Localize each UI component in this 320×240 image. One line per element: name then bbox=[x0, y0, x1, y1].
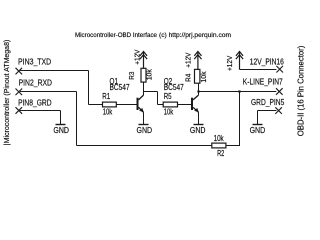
svg-text:R2: R2 bbox=[217, 149, 224, 158]
wire TXD horizontal bbox=[20, 70, 89, 72]
pin PIN2_RXD connector X bbox=[16, 89, 23, 96]
svg-text:GND: GND bbox=[250, 126, 266, 135]
svg-text:GRD_PIN5: GRD_PIN5 bbox=[251, 98, 285, 107]
wire R3 bottom to Q1 collector node bbox=[143, 82, 145, 92]
svg-text:R3: R3 bbox=[129, 71, 136, 79]
wire RXD horizontal bbox=[20, 91, 77, 93]
node B junction dot bbox=[197, 90, 199, 92]
svg-text:(c) http://prj.perquin.com: (c) http://prj.perquin.com bbox=[159, 32, 231, 39]
svg-text:PIN2_RXD: PIN2_RXD bbox=[19, 78, 53, 87]
svg-text:+12V: +12V bbox=[134, 49, 141, 65]
svg-text:GND: GND bbox=[190, 126, 206, 135]
svg-text:10k: 10k bbox=[164, 108, 174, 117]
pin 12V_PIN16 connector X bbox=[276, 66, 283, 73]
wire GRD horizontal bbox=[20, 110, 61, 112]
resistor R3 bbox=[129, 68, 154, 82]
svg-text:GND: GND bbox=[137, 126, 153, 135]
svg-text:GND: GND bbox=[53, 126, 69, 135]
power +12V (R3 pull-up) bbox=[140, 52, 147, 69]
pin PIN3_TXD connector X bbox=[16, 68, 23, 75]
wire R2 right to junction column bbox=[226, 145, 240, 147]
pin PIN8_GRD connector X bbox=[16, 107, 23, 114]
svg-text:OBD-II (16 Pin Connector): OBD-II (16 Pin Connector) bbox=[297, 45, 306, 136]
wire RXD vertical drop bbox=[76, 92, 78, 146]
svg-text:10k: 10k bbox=[103, 107, 113, 116]
wire R1 to Q1 base bbox=[116, 104, 136, 106]
svg-text:BC547: BC547 bbox=[110, 83, 130, 92]
svg-text:K-LINE_PIN7: K-LINE_PIN7 bbox=[243, 78, 283, 87]
wire +12V to PIN16 bbox=[240, 69, 277, 71]
wire R5 to Q2 base bbox=[178, 104, 192, 106]
svg-text:+12V: +12V bbox=[227, 55, 234, 71]
junction dot K-line to R2 bbox=[238, 90, 240, 92]
svg-text:12V_PIN16: 12V_PIN16 bbox=[250, 57, 284, 66]
svg-text:R5: R5 bbox=[164, 92, 172, 101]
wire GRD vertical drop bbox=[60, 111, 62, 125]
transistor Q2 bbox=[164, 77, 199, 125]
wire TXD vertical drop bbox=[88, 71, 90, 105]
svg-text:R4: R4 bbox=[186, 74, 193, 82]
resistor R2 bbox=[212, 134, 226, 158]
power +12V (OBD supply) bbox=[236, 52, 243, 70]
svg-text:10k: 10k bbox=[214, 134, 224, 143]
svg-text:Microcontroller-OBD Interface: Microcontroller-OBD Interface bbox=[75, 32, 157, 39]
transistor Q1 bbox=[110, 77, 144, 125]
wire bottom run to R2 bbox=[77, 145, 212, 147]
wire node A to R5 bbox=[144, 92, 164, 105]
svg-text:R1: R1 bbox=[102, 92, 110, 101]
ground GND (left) bbox=[53, 125, 69, 135]
ground GND (OBD PIN5) bbox=[250, 125, 266, 135]
wire K-line node B to PIN7 bbox=[199, 91, 277, 93]
resistor R1 bbox=[102, 92, 116, 117]
svg-text:PIN3_TXD: PIN3_TXD bbox=[18, 57, 52, 66]
svg-text:+12V: +12V bbox=[185, 52, 192, 68]
svg-text:PIN8_GRD: PIN8_GRD bbox=[18, 98, 52, 107]
svg-text:BC547: BC547 bbox=[164, 83, 184, 92]
svg-text:10k: 10k bbox=[201, 71, 208, 83]
wire TXD to R1 bbox=[89, 104, 103, 106]
pin K-LINE_PIN7 connector X bbox=[276, 88, 283, 95]
svg-text:10k: 10k bbox=[146, 69, 153, 81]
pin GRD_PIN5 connector X bbox=[275, 107, 282, 114]
wire PIN5 to ground bbox=[258, 111, 277, 125]
svg-text:|Microcontroller (Pinout ATMeg: |Microcontroller (Pinout ATMega8) bbox=[4, 40, 11, 146]
wire R4 bottom to node B bbox=[198, 83, 200, 92]
ground GND (Q1 emitter) bbox=[137, 125, 153, 135]
resistor R4 bbox=[186, 69, 208, 83]
resistor R5 bbox=[163, 92, 177, 117]
wire K-line junction down to R2 bbox=[239, 92, 241, 146]
power +12V (R4 pull-up) bbox=[194, 52, 201, 70]
ground GND (Q2 emitter) bbox=[190, 125, 206, 135]
